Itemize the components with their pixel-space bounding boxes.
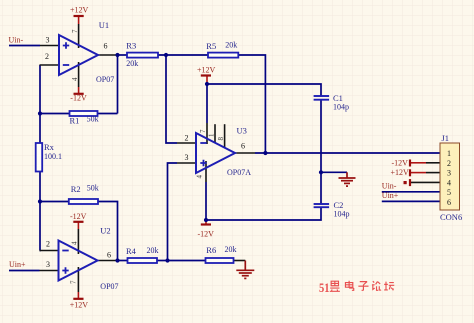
svg-text:7: 7 xyxy=(199,129,207,133)
svg-text:J1: J1 xyxy=(442,133,450,143)
svg-text:Uin+: Uin+ xyxy=(382,191,399,200)
svg-text:U1: U1 xyxy=(99,20,109,30)
svg-text:50k: 50k xyxy=(87,115,99,124)
svg-text:4: 4 xyxy=(196,175,204,179)
svg-text:R5: R5 xyxy=(206,41,216,51)
svg-text:U2: U2 xyxy=(100,226,110,236)
svg-text:-12V: -12V xyxy=(198,230,215,239)
svg-text:7: 7 xyxy=(70,280,78,284)
svg-text:2: 2 xyxy=(447,159,451,168)
svg-text:-12V: -12V xyxy=(70,94,87,103)
svg-text:OP07: OP07 xyxy=(96,75,114,84)
svg-text:20k: 20k xyxy=(225,41,237,50)
svg-text:6: 6 xyxy=(447,198,451,207)
svg-text:3: 3 xyxy=(185,153,189,162)
svg-text:104p: 104p xyxy=(334,210,350,219)
svg-text:R2: R2 xyxy=(71,184,81,194)
svg-text:R4: R4 xyxy=(126,246,137,256)
svg-text:2: 2 xyxy=(46,240,50,249)
svg-text:+12V: +12V xyxy=(391,168,410,177)
svg-text:51: 51 xyxy=(319,281,330,295)
svg-text:OP07A: OP07A xyxy=(227,168,251,177)
svg-text:104p: 104p xyxy=(333,103,349,112)
svg-text:OP07: OP07 xyxy=(100,282,118,291)
svg-text:1: 1 xyxy=(208,133,216,137)
svg-text:C1: C1 xyxy=(333,93,343,103)
svg-text:100.1: 100.1 xyxy=(44,152,62,161)
svg-text:6: 6 xyxy=(241,142,245,151)
svg-text:CON6: CON6 xyxy=(440,212,462,222)
svg-text:20k: 20k xyxy=(225,245,237,254)
svg-text:6: 6 xyxy=(107,251,111,260)
svg-text:20k: 20k xyxy=(147,246,159,255)
svg-text:R1: R1 xyxy=(70,116,80,126)
svg-text:U3: U3 xyxy=(237,126,247,136)
svg-text:-12V: -12V xyxy=(70,212,87,221)
svg-text:+12V: +12V xyxy=(70,6,89,15)
svg-text:3: 3 xyxy=(447,169,451,178)
svg-text:6: 6 xyxy=(104,42,108,51)
svg-text:1: 1 xyxy=(447,149,451,158)
svg-text:3: 3 xyxy=(46,260,50,269)
svg-text:50k: 50k xyxy=(87,184,99,193)
svg-text:-12V: -12V xyxy=(392,159,409,168)
svg-text:7: 7 xyxy=(71,29,79,33)
svg-text:Uin-: Uin- xyxy=(382,181,397,190)
svg-text:20k: 20k xyxy=(126,59,138,68)
svg-text:+12V: +12V xyxy=(197,65,216,74)
svg-text:4: 4 xyxy=(447,178,451,187)
svg-text:4: 4 xyxy=(71,241,79,245)
svg-text:2: 2 xyxy=(45,52,49,61)
svg-text:2: 2 xyxy=(185,134,189,143)
svg-text:4: 4 xyxy=(71,77,79,81)
svg-text:C2: C2 xyxy=(334,200,344,210)
svg-text:3: 3 xyxy=(46,36,50,45)
svg-text:Uin-: Uin- xyxy=(9,36,24,45)
svg-text:8: 8 xyxy=(217,137,225,141)
svg-text:R6: R6 xyxy=(206,245,216,255)
svg-text:R3: R3 xyxy=(126,41,136,51)
svg-text:5: 5 xyxy=(447,188,451,197)
svg-text:Uin+: Uin+ xyxy=(9,260,26,269)
svg-text:Rx: Rx xyxy=(44,142,55,152)
svg-text:+12V: +12V xyxy=(70,300,89,309)
